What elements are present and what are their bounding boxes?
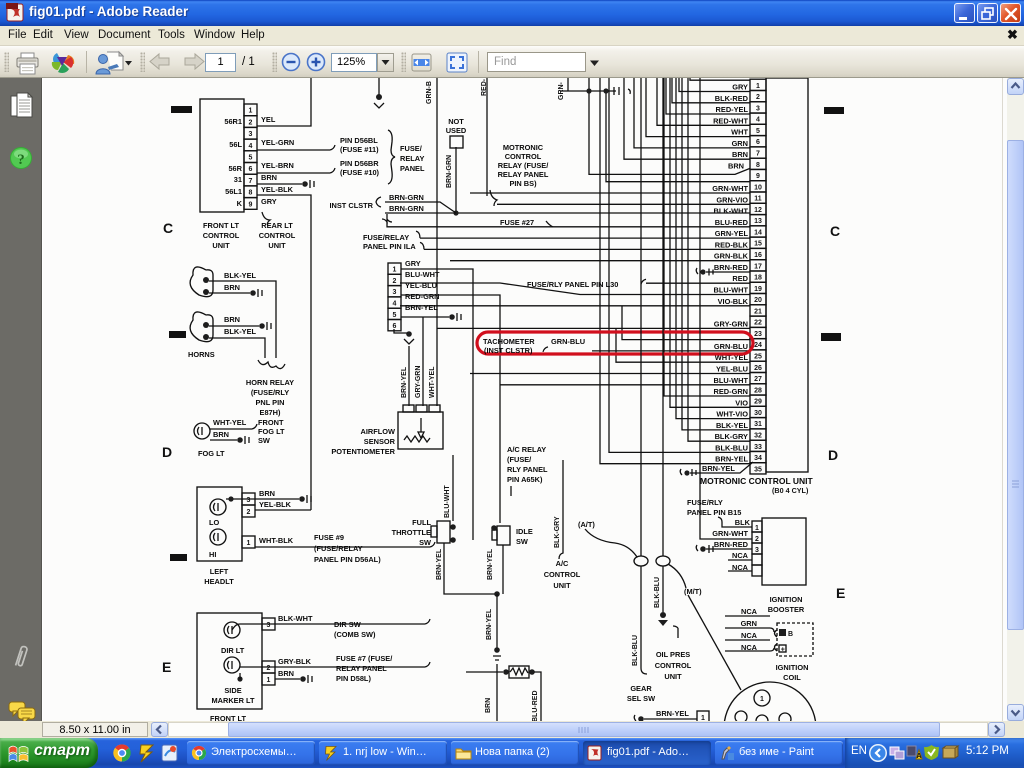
svg-text:K: K [237, 199, 243, 208]
wire to pin 23 GRY-GRN [437, 327, 750, 329]
svg-text:B: B [788, 631, 793, 638]
svg-text:2: 2 [755, 536, 759, 543]
svg-text:D: D [828, 447, 838, 463]
long feeder verticals to lower pins [664, 78, 750, 441]
svg-text:GRN-WHT: GRN-WHT [712, 184, 748, 193]
svg-text:NCA: NCA [741, 607, 758, 616]
svg-text:FRONT LT: FRONT LT [210, 714, 246, 721]
svg-text:YEL-BLU: YEL-BLU [405, 281, 437, 290]
svg-text:BRN: BRN [728, 161, 744, 170]
vertical BLU-WHT wire to full throttle sw [452, 455, 454, 521]
svg-text:6: 6 [756, 139, 760, 146]
dir lamp [224, 622, 240, 638]
svg-text:31: 31 [754, 421, 762, 428]
svg-text:WHT: WHT [731, 128, 748, 137]
brace and label FUSE/RELAY PANEL [388, 130, 395, 184]
front lt control unit box [200, 99, 244, 212]
svg-text:GRN-: GRN- [558, 81, 565, 100]
svg-text:21: 21 [754, 308, 762, 315]
distributor circle [724, 682, 816, 768]
svg-text:BRN-GRN: BRN-GRN [389, 204, 424, 213]
svg-text:9: 9 [756, 173, 760, 180]
svg-text:32: 32 [754, 433, 762, 440]
svg-text:BLK-YEL: BLK-YEL [224, 327, 257, 336]
svg-text:BRN-YEL: BRN-YEL [486, 608, 493, 640]
svg-text:FUSE/: FUSE/ [400, 144, 422, 153]
svg-text:BLK-GRY: BLK-GRY [554, 516, 561, 548]
svg-text:BLK-YEL: BLK-YEL [716, 421, 749, 430]
wire to pin 35 [600, 78, 750, 464]
svg-text:SENSOR: SENSOR [364, 437, 396, 446]
svg-text:56R1: 56R1 [224, 117, 242, 126]
svg-text:(FUSE/RLY: (FUSE/RLY [251, 388, 289, 397]
dir lt / side marker box [197, 613, 262, 709]
svg-text:RELAY: RELAY [400, 154, 424, 163]
wire to pin 28 [500, 384, 750, 386]
marker pins 3 2 1 [262, 618, 275, 630]
motronic control unit box [766, 78, 808, 472]
svg-text:BRN-YEL: BRN-YEL [715, 455, 748, 464]
svg-text:GRN-BLU: GRN-BLU [714, 342, 748, 351]
wire YEL-BLU pin3 down (WHT-VIO branch) [401, 295, 500, 523]
svg-text:BLU-RED: BLU-RED [532, 691, 539, 722]
vertical wire GRN label top left [567, 78, 569, 91]
svg-text:RED-GRN: RED-GRN [405, 292, 440, 301]
svg-text:GRN-BLK: GRN-BLK [714, 252, 749, 261]
svg-text:FRONT: FRONT [258, 418, 284, 427]
pin strip wire color labels [712, 83, 748, 464]
svg-text:BLK-GRY: BLK-GRY [715, 432, 748, 441]
ignition coil [777, 623, 813, 656]
svg-text:RELAY (FUSE/: RELAY (FUSE/ [498, 161, 549, 170]
svg-text:BLK-BLU: BLK-BLU [715, 443, 748, 452]
svg-text:GRY-BLK: GRY-BLK [278, 657, 312, 666]
svg-text:1: 1 [760, 696, 764, 703]
svg-text:BRN-YEL: BRN-YEL [405, 303, 438, 312]
svg-text:OIL PRES: OIL PRES [656, 650, 690, 659]
svg-text:WHT-VIO: WHT-VIO [716, 410, 748, 419]
svg-text:USED: USED [446, 126, 467, 135]
svg-text:17: 17 [754, 263, 762, 270]
pinwheel collab icon [49, 51, 77, 75]
wire BRN vertical bottom [496, 664, 498, 721]
svg-text:30: 30 [754, 410, 762, 417]
svg-text:27: 27 [754, 376, 762, 383]
svg-text:UNIT: UNIT [553, 581, 571, 590]
svg-text:RED: RED [732, 274, 748, 283]
svg-text:GEAR: GEAR [630, 684, 652, 693]
svg-text:20: 20 [754, 297, 762, 304]
svg-text:YEL: YEL [261, 115, 276, 124]
fit width icon [410, 51, 434, 75]
wire BRN-YEL below idle sw [502, 545, 504, 594]
svg-text:11: 11 [754, 196, 762, 203]
svg-text:3: 3 [756, 105, 760, 112]
svg-text:BRN-YEL: BRN-YEL [401, 366, 408, 398]
svg-text:CONTROL: CONTROL [505, 152, 542, 161]
motronic control unit pin header 1-36 [750, 79, 766, 474]
svg-text:PANEL PIN B15: PANEL PIN B15 [687, 508, 741, 517]
svg-text:PANEL PIN D56AL): PANEL PIN D56AL) [314, 555, 381, 564]
headlamp LO [210, 499, 226, 515]
svg-text:FUSE #27: FUSE #27 [500, 218, 534, 227]
svg-text:34: 34 [754, 455, 762, 462]
svg-text:35: 35 [754, 466, 762, 473]
wire RED-GRN row (left connector pin 4) to pin 21 [400, 305, 750, 307]
control unit pin column 1-9 [244, 104, 257, 209]
svg-text:YEL-BRN: YEL-BRN [261, 161, 294, 170]
svg-text:BLK-BLU: BLK-BLU [654, 577, 661, 608]
sign/person icon [95, 50, 125, 76]
svg-text:WHT-YEL: WHT-YEL [429, 366, 436, 398]
fog lamp [194, 423, 210, 439]
svg-text:5: 5 [756, 128, 760, 135]
svg-text:HORN RELAY: HORN RELAY [246, 378, 294, 387]
svg-text:18: 18 [754, 275, 762, 282]
right margin dash (D) [821, 333, 841, 341]
svg-text:9: 9 [249, 201, 253, 208]
svg-text:13: 13 [754, 218, 762, 225]
fit page icon [444, 51, 470, 75]
svg-text:(B0 4 CYL): (B0 4 CYL) [772, 486, 809, 495]
back arrow (disabled) [149, 52, 171, 72]
svg-text:FUSE/RLY PANEL PIN L30: FUSE/RLY PANEL PIN L30 [527, 280, 618, 289]
wire to pin 11 [470, 192, 750, 194]
svg-text:BRN: BRN [259, 489, 275, 498]
svg-text:PIN BS): PIN BS) [509, 179, 537, 188]
svg-text:NCA: NCA [732, 551, 749, 560]
svg-text:RED-GRN: RED-GRN [714, 387, 749, 396]
svg-text:BLU-RED: BLU-RED [715, 218, 749, 227]
label FUSE/RELAY PANEL PIN ILA [382, 214, 392, 222]
svg-text:SW: SW [419, 538, 431, 547]
svg-text:BLU-WHT: BLU-WHT [405, 270, 440, 279]
svg-text:BRN: BRN [278, 669, 294, 678]
svg-text:BRN: BRN [224, 283, 240, 292]
svg-text:REAR LT: REAR LT [261, 221, 293, 230]
potentiometer symbol [404, 418, 430, 442]
svg-text:PIN D56BL: PIN D56BL [340, 136, 378, 145]
svg-text:GRN-VIO: GRN-VIO [716, 195, 748, 204]
zoom in [306, 52, 328, 74]
svg-text:BLK-BLU: BLK-BLU [632, 635, 639, 666]
svg-text:HEADLT: HEADLT [204, 577, 234, 586]
wire to pin 15 [416, 231, 750, 238]
quick launch [112, 743, 132, 763]
vertical BRN-YEL to airflow [408, 346, 410, 406]
svg-text:BLK-WHT: BLK-WHT [278, 614, 313, 623]
svg-text:PIN D58L): PIN D58L) [336, 674, 371, 683]
junction and wire down with ground [494, 591, 500, 597]
svg-text:CONTROL: CONTROL [203, 231, 240, 240]
svg-text:DIR SW: DIR SW [334, 620, 361, 629]
svg-text:YEL-BLK: YEL-BLK [259, 500, 292, 509]
red highlight oval TACHOMETER [477, 332, 753, 354]
svg-text:DIR LT: DIR LT [221, 646, 245, 655]
svg-text:UNIT: UNIT [212, 241, 230, 250]
6-pin connector [388, 263, 401, 331]
ground symbol top (x379) [378, 78, 380, 95]
wire tachometer GRN-BLU to pin 25 [543, 347, 750, 352]
svg-text:4: 4 [249, 143, 253, 150]
top feeder wires into motronic pins [624, 78, 750, 159]
wire: into pin 10 [606, 92, 750, 182]
svg-text:C: C [830, 223, 840, 239]
svg-text:CONTROL: CONTROL [259, 231, 296, 240]
svg-text:BRN: BRN [261, 173, 277, 182]
label OIL PRES CONTROL UNIT [673, 626, 678, 638]
svg-text:SW: SW [258, 436, 270, 445]
left headlt box [197, 487, 242, 561]
task buttons [187, 741, 315, 765]
svg-text:BRN-YEL: BRN-YEL [487, 548, 494, 580]
svg-text:GRY: GRY [261, 197, 277, 206]
svg-text:AIRFLOW: AIRFLOW [361, 427, 396, 436]
svg-text:GRN-WHT: GRN-WHT [712, 529, 748, 538]
wire BRN-GRN lower to junction [385, 212, 456, 214]
help icon [9, 146, 35, 172]
forward arrow (disabled) [183, 52, 205, 72]
svg-text:BLU-WHT: BLU-WHT [444, 485, 451, 518]
svg-text:25: 25 [754, 354, 762, 361]
svg-text:GRN: GRN [741, 619, 757, 628]
HT lead to distributor [688, 595, 741, 690]
svg-text:3: 3 [247, 497, 251, 504]
svg-text:BRN-RED: BRN-RED [714, 263, 749, 272]
svg-text:GRN-BLU: GRN-BLU [551, 337, 585, 346]
svg-text:FUSE/RLY: FUSE/RLY [687, 498, 723, 507]
svg-text:2: 2 [267, 665, 271, 672]
svg-text:BRN-GRN: BRN-GRN [389, 193, 424, 202]
svg-text:2: 2 [249, 119, 253, 126]
svg-text:A: A [916, 753, 921, 760]
svg-text:MARKER LT: MARKER LT [212, 696, 255, 705]
svg-text:28: 28 [754, 387, 762, 394]
svg-text:E: E [162, 659, 171, 675]
svg-text:HORNS: HORNS [188, 350, 215, 359]
svg-text:FRONT LT: FRONT LT [203, 221, 239, 230]
svg-text:RLY PANEL: RLY PANEL [507, 465, 548, 474]
svg-text:FULL: FULL [412, 518, 431, 527]
svg-text:CONTROL: CONTROL [544, 570, 581, 579]
svg-text:BRN: BRN [224, 315, 240, 324]
svg-text:3: 3 [393, 289, 397, 296]
svg-text:GRY-GRN: GRY-GRN [415, 366, 422, 398]
left margin dash C [171, 106, 192, 113]
svg-text:HI: HI [209, 550, 216, 559]
svg-text:FOG LT: FOG LT [198, 449, 225, 458]
svg-text:2: 2 [393, 278, 397, 285]
svg-text:SW: SW [516, 537, 528, 546]
svg-text:BRN: BRN [213, 430, 229, 439]
svg-text:5: 5 [393, 312, 397, 319]
svg-text:2: 2 [247, 509, 251, 516]
svg-text:RELAY PANEL: RELAY PANEL [336, 664, 387, 673]
svg-text:E87H): E87H) [260, 408, 281, 417]
svg-text:24: 24 [754, 342, 762, 349]
svg-text:23: 23 [754, 331, 762, 338]
svg-text:29: 29 [754, 399, 762, 406]
svg-text:16: 16 [754, 252, 762, 259]
right branch BLK-BLU to ground [662, 566, 664, 612]
svg-text:INST CLSTR: INST CLSTR [329, 201, 373, 210]
svg-text:6: 6 [249, 166, 253, 173]
resistor (in-line) [509, 666, 529, 678]
svg-text:BLU-WHT: BLU-WHT [714, 376, 749, 385]
svg-text:RELAY PANEL: RELAY PANEL [498, 170, 549, 179]
svg-text:56L1: 56L1 [225, 187, 242, 196]
distributor cap contacts [735, 711, 747, 723]
wire: BRN into pin 9 with slant [589, 78, 750, 174]
svg-text:FUSE #9: FUSE #9 [314, 533, 344, 542]
svg-text:PANEL PIN ILA: PANEL PIN ILA [363, 242, 416, 251]
svg-text:1: 1 [247, 540, 251, 547]
svg-text:BOOSTER: BOOSTER [768, 605, 805, 614]
svg-text:MOTRONIC: MOTRONIC [503, 143, 544, 152]
svg-text:WHT-BLK: WHT-BLK [259, 536, 294, 545]
svg-text:BLK-RED: BLK-RED [715, 94, 749, 103]
vertical WHT-YEL to airflow [436, 78, 438, 406]
side marker lamp [224, 657, 240, 673]
wire BRN-GRN upper to junction [385, 202, 456, 213]
svg-text:BLK: BLK [735, 518, 751, 527]
vertical GRY-GRN to airflow [422, 317, 424, 406]
wire to pin 17 [450, 260, 750, 262]
junction node on top bus y=91 [560, 90, 616, 92]
svg-text:3: 3 [755, 547, 759, 554]
svg-text:GRY: GRY [732, 83, 748, 92]
wire BRN-GRN junction to pin 13 [456, 147, 750, 213]
svg-text:NCA: NCA [741, 631, 758, 640]
svg-text:VIO-BLK: VIO-BLK [718, 297, 749, 306]
right margin dash (C) [824, 107, 844, 114]
svg-text:1: 1 [249, 108, 253, 115]
svg-text:5: 5 [249, 155, 253, 162]
comments icon [8, 700, 38, 726]
svg-text:E: E [836, 585, 845, 601]
svg-text:56L: 56L [229, 140, 242, 149]
system tray [845, 738, 1024, 768]
horn 1 [190, 267, 213, 297]
svg-text:2: 2 [756, 94, 760, 101]
svg-text:YEL-GRN: YEL-GRN [261, 138, 294, 147]
svg-text:YEL-BLU: YEL-BLU [716, 365, 748, 374]
svg-text:BLU-WHT: BLU-WHT [714, 286, 749, 295]
svg-text:10: 10 [754, 184, 762, 191]
svg-text:COIL: COIL [783, 673, 801, 682]
svg-text:FUSE #7 (FUSE/: FUSE #7 (FUSE/ [336, 654, 392, 663]
svg-text:FOG LT: FOG LT [258, 427, 285, 436]
wire BRN-YEL below full throttle [444, 543, 497, 594]
svg-text:SEL SW: SEL SW [627, 694, 655, 703]
svg-text:?: ? [17, 152, 25, 168]
svg-text:(M/T): (M/T) [684, 587, 702, 596]
svg-text:(A/T): (A/T) [578, 520, 595, 529]
svg-text:4: 4 [756, 117, 760, 124]
svg-text:31: 31 [234, 175, 242, 184]
headlamp HI [210, 529, 226, 545]
svg-text:BRN-YEL: BRN-YEL [656, 709, 689, 718]
inline connector marks near x=620 [614, 87, 630, 95]
headlt pins 3 2 1 [242, 493, 255, 505]
wire to pin 12 [497, 203, 750, 205]
vertical BLK-GRY wire [559, 460, 563, 559]
left margin dash (horns) [169, 331, 186, 338]
svg-text:IGNITION: IGNITION [770, 595, 803, 604]
svg-text:UNIT: UNIT [268, 241, 286, 250]
svg-text:GRN: GRN [732, 139, 748, 148]
svg-text:PIN A65K): PIN A65K) [507, 475, 543, 484]
svg-text:LEFT: LEFT [210, 567, 229, 576]
svg-text:GRY: GRY [405, 259, 421, 268]
svg-text:4: 4 [393, 301, 397, 308]
svg-text:FUSE/RELAY: FUSE/RELAY [363, 233, 409, 242]
svg-text:PIN D56BR: PIN D56BR [340, 159, 379, 168]
svg-text:GRY-GRN: GRY-GRN [714, 319, 748, 328]
svg-text:(FUSE #11): (FUSE #11) [340, 145, 379, 154]
wire to pin 27 [470, 373, 750, 375]
printer icon [16, 52, 40, 76]
svg-text:(FUSE/RELAY: (FUSE/RELAY [314, 544, 363, 553]
svg-text:RED-BLK: RED-BLK [715, 240, 749, 249]
svg-text:POTENTIOMETER: POTENTIOMETER [331, 447, 395, 456]
wire from PIN ILA hook to pin 14 (tapped by FUSE #27) [387, 222, 750, 227]
svg-text:YEL-BLK: YEL-BLK [261, 185, 294, 194]
start button [0, 738, 98, 768]
svg-text:CONTROL: CONTROL [655, 661, 692, 670]
svg-text:56R: 56R [228, 164, 242, 173]
svg-text:3: 3 [267, 622, 271, 629]
svg-text:RED-WHT: RED-WHT [713, 116, 748, 125]
svg-text:8: 8 [249, 190, 253, 197]
svg-text:(FUSE #10): (FUSE #10) [340, 168, 380, 177]
wire to pin 26 [616, 328, 750, 362]
svg-text:BRN-GRN: BRN-GRN [446, 155, 453, 188]
svg-text:1: 1 [393, 267, 397, 274]
svg-text:D: D [162, 444, 172, 460]
wire to pin 16 [420, 242, 750, 249]
svg-text:BLK-WHT: BLK-WHT [714, 207, 749, 216]
svg-text:BLK-YEL: BLK-YEL [224, 271, 257, 280]
svg-text:8: 8 [756, 162, 760, 169]
svg-text:12: 12 [754, 207, 762, 214]
svg-text:SIDE: SIDE [224, 686, 241, 695]
svg-text:NOT: NOT [448, 117, 464, 126]
svg-text:33: 33 [754, 444, 762, 451]
svg-text:TACHOMETER: TACHOMETER [483, 337, 535, 346]
svg-text:A/C RELAY: A/C RELAY [507, 445, 546, 454]
horn 2 [190, 312, 213, 342]
svg-text:BRN: BRN [732, 150, 748, 159]
wire FUSE/RLY PANEL PIN L30 to pin 19 [641, 279, 750, 284]
svg-text:(FUSE/: (FUSE/ [507, 455, 531, 464]
ground stub below connector [394, 329, 409, 333]
svg-text:PNL PIN: PNL PIN [255, 398, 284, 407]
left branch BLK-BLU to gear sel sw [641, 566, 647, 674]
svg-text:MOTRONIC CONTROL UNIT: MOTRONIC CONTROL UNIT [700, 476, 814, 486]
wire GRY pin1 down to full throttle region [401, 269, 473, 540]
svg-text:7: 7 [249, 178, 253, 185]
gear selector Y wires [641, 78, 663, 556]
svg-text:1: 1 [756, 83, 760, 90]
svg-text:19: 19 [754, 286, 762, 293]
left margin dash (headlt) [170, 554, 187, 561]
svg-text:GRN-B: GRN-B [426, 81, 433, 104]
svg-text:BRN-YEL: BRN-YEL [436, 548, 443, 580]
svg-text:3: 3 [249, 131, 253, 138]
wire to pin 24 [622, 306, 750, 340]
wire BRN-YEL pin5 with connector end [401, 316, 449, 318]
